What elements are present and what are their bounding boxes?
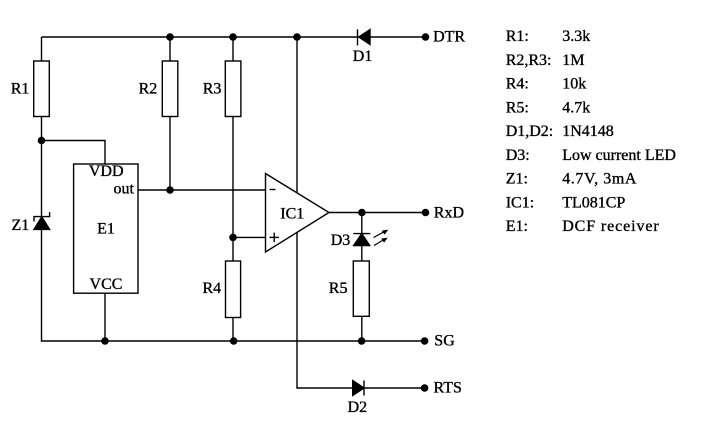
svg-text:R1:: R1: [506,28,529,45]
svg-text:SG: SG [434,333,455,350]
svg-text:DCF receiver: DCF receiver [562,218,659,235]
svg-text:D1: D1 [353,48,373,65]
svg-text:4.7k: 4.7k [562,100,590,117]
svg-text:D1,D2:: D1,D2: [506,123,554,140]
svg-text:VCC: VCC [90,276,123,293]
svg-text:E1:: E1: [506,218,528,235]
svg-text:Low current LED: Low current LED [562,147,676,164]
svg-text:RxD: RxD [434,204,464,221]
svg-text:R1: R1 [11,81,30,98]
svg-text:D3: D3 [331,232,351,249]
svg-text:out: out [114,181,135,198]
svg-text:R4:: R4: [506,76,529,93]
svg-text:D3:: D3: [506,147,530,164]
svg-text:R5:: R5: [506,100,529,117]
svg-text:DTR: DTR [433,28,465,45]
svg-text:1N4148: 1N4148 [562,123,614,140]
svg-text:1M: 1M [562,52,584,69]
svg-text:R3: R3 [203,81,222,98]
svg-text:R4: R4 [203,280,222,297]
svg-text:IC1: IC1 [280,206,304,223]
svg-text:R5: R5 [329,280,348,297]
svg-text:Z1: Z1 [12,217,30,234]
svg-text:Z1:: Z1: [506,171,528,188]
svg-text:10k: 10k [562,76,586,93]
svg-text:VDD: VDD [89,163,124,180]
svg-text:3.3k: 3.3k [562,28,590,45]
svg-text:D2: D2 [348,399,368,416]
svg-text:R2: R2 [139,81,158,98]
svg-text:IC1:: IC1: [506,195,534,212]
svg-text:RTS: RTS [434,380,462,397]
svg-text:TL081CP: TL081CP [562,195,625,212]
svg-text:R2,R3:: R2,R3: [506,52,552,69]
svg-text:E1: E1 [97,221,115,238]
svg-text:4.7V, 3mA: 4.7V, 3mA [562,171,637,188]
